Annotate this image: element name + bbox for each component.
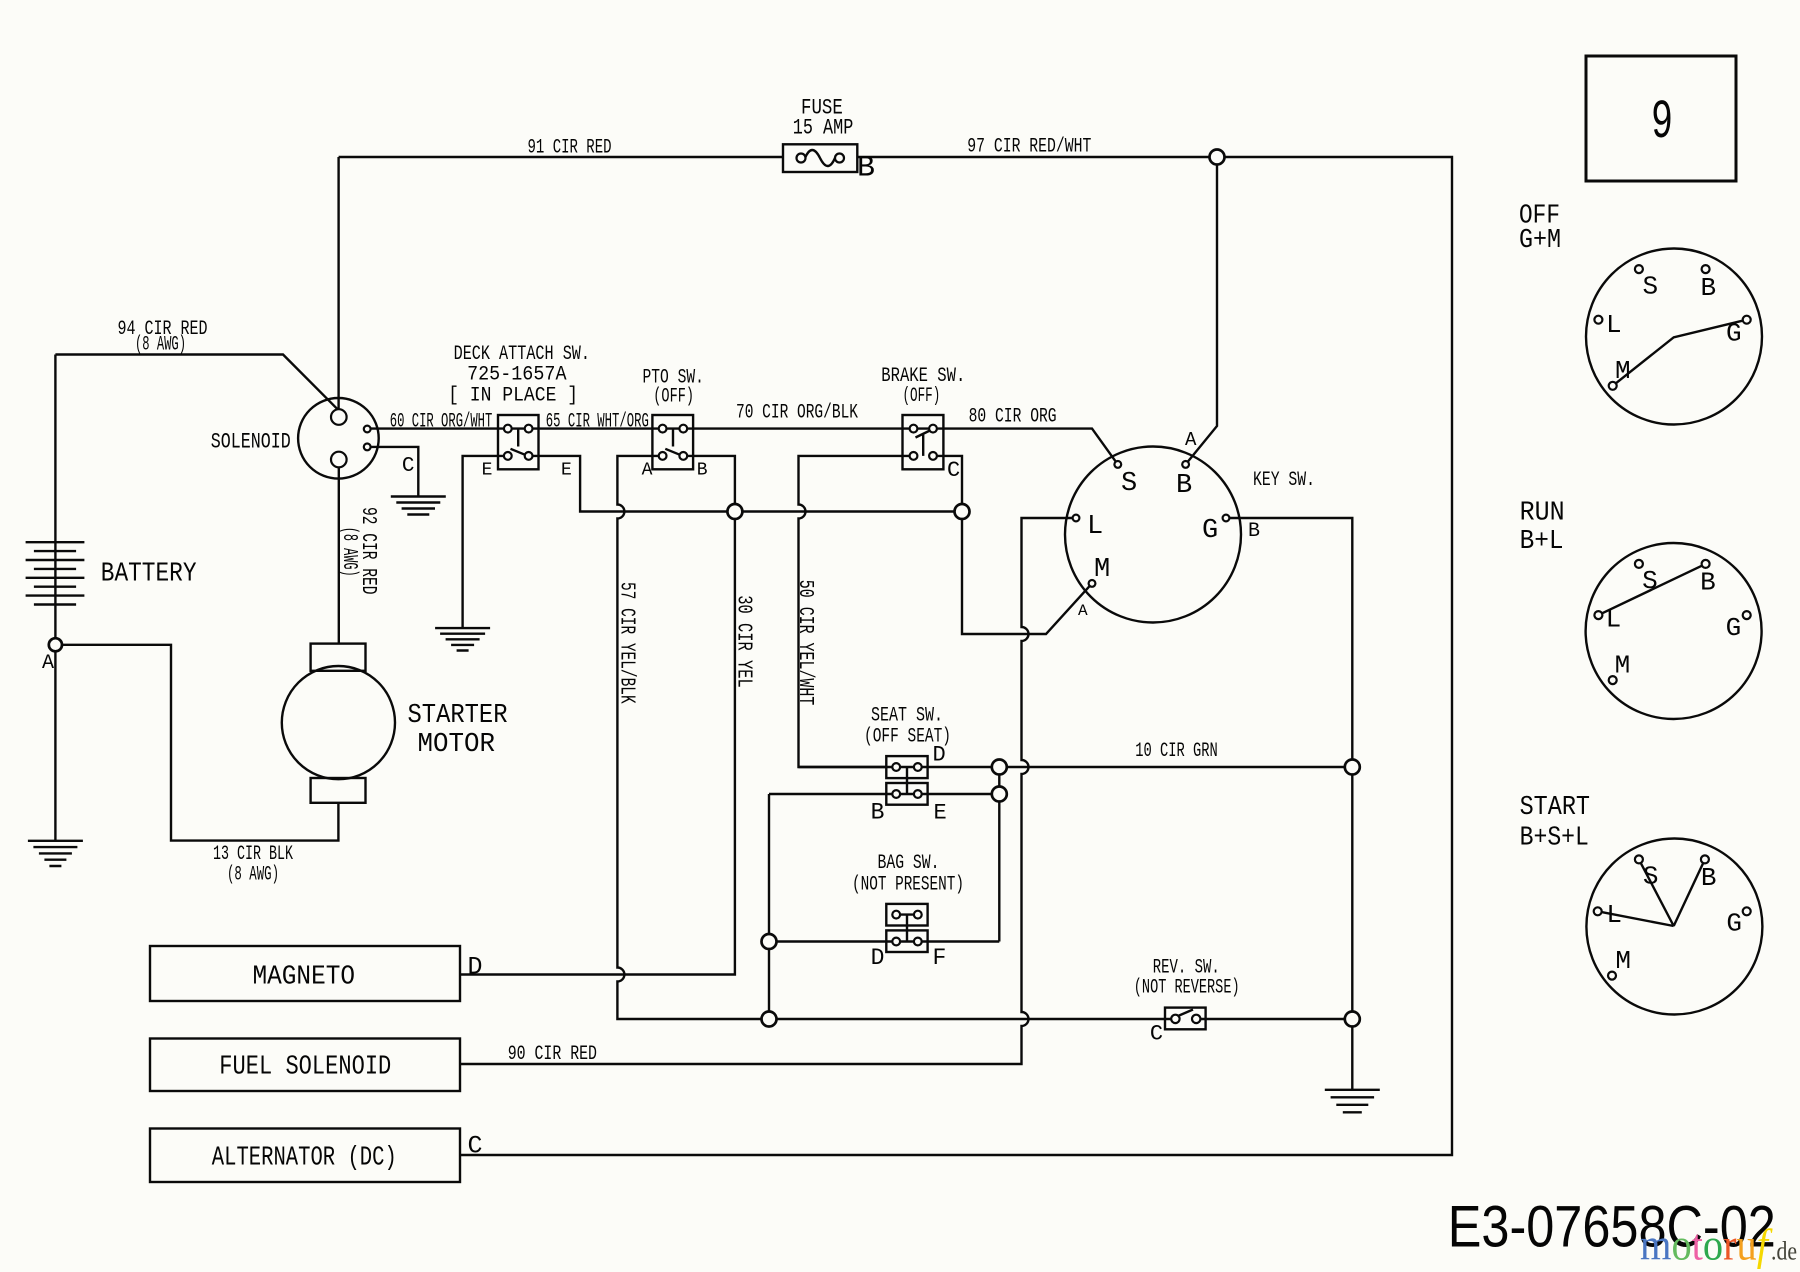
svg-text:70 CIR ORG/BLK: 70 CIR ORG/BLK [736,401,858,424]
svg-text:B: B [1701,273,1717,303]
svg-text:S: S [1643,272,1659,302]
svg-text:M: M [1615,946,1631,976]
svg-text:A: A [642,461,653,481]
svg-text:MAGNETO: MAGNETO [253,963,356,993]
svg-text:L: L [1606,605,1622,635]
svg-text:G+M: G+M [1519,226,1561,256]
svg-text:KEY SW.: KEY SW. [1253,469,1315,492]
svg-text:G: G [1726,319,1742,349]
svg-text:L: L [1606,900,1622,930]
svg-text:BATTERY: BATTERY [101,560,197,590]
svg-text:57 CIR YEL/BLK: 57 CIR YEL/BLK [615,582,638,704]
svg-text:A: A [1078,602,1088,620]
svg-text:(NOT PRESENT): (NOT PRESENT) [852,874,964,897]
svg-text:G: G [1726,909,1742,939]
svg-text:SOLENOID: SOLENOID [211,429,291,454]
svg-text:60 CIR ORG/WHT: 60 CIR ORG/WHT [390,411,493,434]
svg-text:D: D [871,945,885,971]
svg-text:S: S [1642,566,1658,596]
svg-text:M: M [1615,651,1631,681]
svg-text:ALTERNATOR (DC): ALTERNATOR (DC) [212,1144,397,1174]
svg-text:B: B [1248,520,1260,543]
svg-text:B+S+L: B+S+L [1520,824,1589,854]
svg-text:C: C [947,458,960,483]
svg-text:BAG SW.: BAG SW. [878,852,940,875]
svg-text:(8 AWG): (8 AWG) [227,864,279,887]
svg-text:C: C [468,1132,483,1161]
svg-text:A: A [1185,429,1197,451]
svg-text:[ IN PLACE ]: [ IN PLACE ] [448,385,578,408]
svg-text:(8 AWG): (8 AWG) [135,334,186,357]
svg-text:D: D [468,953,483,982]
svg-text:B: B [1700,568,1716,598]
svg-text:E: E [561,461,572,481]
svg-text:F: F [933,945,947,971]
svg-text:B: B [1176,471,1192,501]
svg-text:B: B [857,152,875,186]
svg-text:G: G [1202,516,1218,546]
svg-text:RUN: RUN [1520,498,1565,528]
svg-text:L: L [1606,310,1622,340]
svg-text:E: E [482,461,493,481]
svg-text:C: C [402,455,415,478]
svg-text:(OFF): (OFF) [653,385,694,408]
svg-text:L: L [1087,512,1103,542]
svg-text:80 CIR ORG: 80 CIR ORG [969,405,1057,428]
svg-text:.de: .de [1771,1237,1797,1266]
svg-text:10 CIR GRN: 10 CIR GRN [1135,740,1218,763]
svg-text:M: M [1094,555,1110,585]
svg-text:30 CIR YEL: 30 CIR YEL [731,595,754,688]
svg-text:E: E [934,800,947,825]
svg-text:G: G [1726,613,1742,643]
svg-text:DECK ATTACH SW.: DECK ATTACH SW. [454,343,590,366]
svg-text:M: M [1615,356,1631,386]
svg-text:STARTER: STARTER [408,701,508,731]
svg-text:(8 AWG): (8 AWG) [337,527,360,577]
svg-text:S: S [1643,862,1659,892]
svg-text:START: START [1520,793,1590,823]
svg-text:90 CIR RED: 90 CIR RED [508,1043,597,1066]
svg-text:B: B [1701,863,1717,893]
svg-text:FUEL SOLENOID: FUEL SOLENOID [219,1053,391,1083]
svg-text:91 CIR RED: 91 CIR RED [528,137,612,160]
svg-text:B: B [871,799,885,825]
svg-text:SEAT SW.: SEAT SW. [871,705,943,728]
svg-text:15 AMP: 15 AMP [793,116,854,141]
svg-text:C: C [1150,1022,1163,1047]
svg-text:S: S [1121,469,1137,499]
svg-text:65 CIR WHT/ORG: 65 CIR WHT/ORG [546,411,649,434]
svg-text:(OFF): (OFF) [903,385,941,408]
svg-text:A: A [42,652,54,675]
svg-text:B+L: B+L [1520,527,1564,557]
svg-text:(NOT REVERSE): (NOT REVERSE) [1134,977,1240,1000]
svg-text:97 CIR RED/WHT: 97 CIR RED/WHT [967,136,1091,159]
svg-text:9: 9 [1651,91,1673,154]
svg-text:MOTOR: MOTOR [418,730,496,760]
svg-text:B: B [697,461,708,481]
svg-text:50 CIR YEL/WHT: 50 CIR YEL/WHT [793,580,816,706]
svg-text:D: D [933,743,946,768]
svg-text:725-1657A: 725-1657A [467,364,566,387]
svg-text:motoruf: motoruf [1640,1221,1773,1270]
